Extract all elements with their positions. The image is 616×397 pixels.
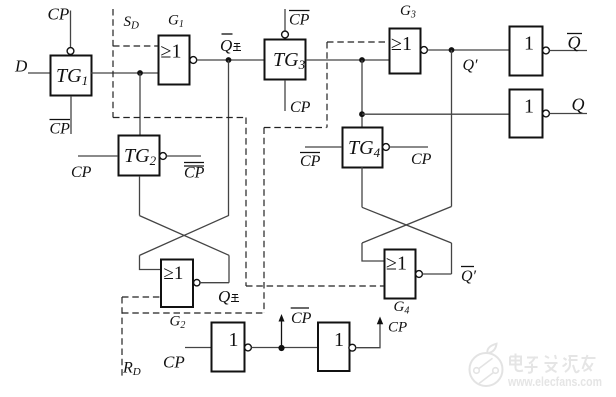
- svg-text:CP: CP: [289, 12, 310, 29]
- bubble on G1 output: [190, 57, 197, 64]
- wire junction down to TG4 top: [361, 60, 363, 127]
- svg-text:1: 1: [524, 96, 534, 118]
- label CP (top left): [48, 5, 70, 24]
- dashed into G4 input: [246, 285, 384, 287]
- wire TG1 bottom to CPbar: [70, 96, 72, 134]
- label G4: [394, 299, 410, 317]
- dashed RD horizontal run: [122, 312, 264, 314]
- svg-text:Q: Q: [572, 95, 585, 115]
- wire G2 output riser: [228, 255, 230, 282]
- dashed RD vertical: [121, 297, 123, 376]
- bubble on G3 output: [421, 47, 428, 54]
- label Qbar': [461, 267, 477, 286]
- label Qbar: [567, 33, 582, 53]
- wire master cross diagonal A: [140, 216, 230, 256]
- bubble on TG2 output: [160, 153, 167, 160]
- label Q-main: [218, 287, 239, 306]
- svg-text:≥1: ≥1: [386, 253, 407, 275]
- svg-text:CP: CP: [184, 165, 205, 182]
- label CP (at arrow 2): [388, 320, 407, 336]
- transmission gate TG4: [343, 128, 383, 168]
- svg-text:CP: CP: [300, 153, 321, 170]
- bubble on Q inverter output: [543, 110, 550, 117]
- dashed RD to G2 input: [122, 296, 160, 298]
- label G1: [168, 13, 184, 31]
- transmission gate TG1: [51, 56, 92, 96]
- dashed SD to G1 input: [113, 45, 158, 47]
- svg-text:Q: Q: [220, 36, 232, 55]
- bubble on bottom inverter 2 output: [349, 344, 356, 351]
- svg-text:CP: CP: [290, 99, 311, 116]
- wire slave cross diagonal B: [362, 207, 452, 244]
- svg-text:Q′: Q′: [463, 57, 479, 74]
- or-gate G2: [161, 260, 193, 308]
- wire TG3 bottom to CP: [284, 80, 286, 111]
- svg-text:CP: CP: [163, 353, 185, 372]
- junction node Q': [449, 47, 455, 53]
- wire CP to TG1 top: [70, 11, 72, 48]
- label CP (right of TG4): [411, 151, 432, 168]
- wire CP input (bottom): [185, 347, 211, 349]
- wire Qbar-main vertical: [228, 60, 230, 215]
- wire CPbar to TG3 top: [284, 9, 286, 31]
- wire G1 output to TG3: [197, 59, 264, 61]
- bubble on bottom inverter 1 output: [245, 344, 252, 351]
- svg-text:CP: CP: [48, 5, 70, 24]
- wire TG2 bottom: [139, 176, 141, 216]
- bubble on TG1 top: [67, 48, 74, 55]
- svg-text:Q′: Q′: [461, 268, 477, 285]
- wire TG1 output to G1: [91, 72, 158, 74]
- or-gate G3: [390, 29, 421, 74]
- svg-text:≥1: ≥1: [164, 263, 184, 284]
- transmission gate TG3: [265, 40, 306, 80]
- svg-text:CP: CP: [291, 310, 312, 327]
- label G3: [400, 3, 416, 21]
- label CP (below TG3): [290, 99, 311, 116]
- dashed into G3 input: [327, 41, 389, 43]
- label CP-bar (below TG1): [50, 120, 71, 138]
- svg-text:SD: SD: [124, 14, 140, 32]
- or-gate G1: [159, 36, 190, 85]
- wire G3 output to inverter: [427, 49, 509, 51]
- label CP-bar (left of TG4): [300, 153, 321, 171]
- wire inverter2 output to CP arrow: [355, 323, 380, 348]
- label CP (left of TG2): [71, 164, 92, 181]
- junction node above TG4: [359, 111, 365, 117]
- svg-text:D: D: [14, 57, 28, 76]
- svg-text:G3: G3: [400, 3, 416, 21]
- junction node Qbar-main: [226, 57, 232, 63]
- wire master cross diagonal B: [140, 215, 230, 255]
- label Qbar-main: [220, 34, 241, 55]
- label CP-bar (at arrow): [291, 308, 312, 327]
- svg-text:1: 1: [334, 329, 344, 351]
- svg-text:1: 1: [524, 33, 534, 55]
- label Q': [463, 57, 479, 74]
- wire TG4 bottom: [361, 167, 363, 207]
- wire inverter1 to inverter2: [251, 347, 317, 349]
- inverter bottom 2: [318, 323, 350, 372]
- wire slave cross diagonal A: [362, 207, 452, 243]
- svg-text:www.elecfans.com: www.elecfans.com: [507, 374, 602, 389]
- dashed vertical to G4: [245, 118, 247, 287]
- svg-text:≥1: ≥1: [391, 33, 412, 55]
- wire G2 output: [200, 282, 229, 284]
- label CP-double-bar (right of TG2): [184, 163, 205, 182]
- bubble on Qbar inverter output: [543, 47, 550, 54]
- inverter Q: [510, 90, 543, 138]
- svg-text:G4: G4: [394, 299, 410, 317]
- wire TG2 output: [166, 155, 201, 157]
- junction node CPbar: [278, 345, 284, 351]
- label SD: [124, 14, 140, 32]
- svg-text:Q: Q: [218, 287, 230, 306]
- wire TG2 input: [78, 155, 118, 157]
- junction node TG3 output: [359, 57, 365, 63]
- label RD: [122, 360, 141, 379]
- dashed vertical run to RD: [263, 128, 265, 314]
- junction node at TG1 output: [137, 70, 143, 76]
- label CP-bar (above TG3): [289, 11, 310, 29]
- wire G4 output: [422, 273, 451, 275]
- wire to Q inverter input: [362, 113, 509, 115]
- label G2: [170, 314, 186, 332]
- inverter bottom 1: [212, 323, 245, 372]
- wire TG4 output: [389, 146, 428, 148]
- label CP (bottom input): [163, 353, 185, 372]
- wire Q' vertical: [451, 50, 453, 207]
- svg-text:G2: G2: [170, 314, 186, 332]
- svg-text:CP: CP: [388, 320, 407, 336]
- dashed horizontal below TG3: [264, 127, 327, 129]
- wire G4 output riser: [451, 243, 453, 274]
- wire D input: [28, 72, 50, 74]
- arrowhead CP: [377, 317, 383, 325]
- wire Qbar output: [549, 50, 587, 52]
- node D label: [14, 57, 28, 76]
- bubble on TG3 top: [282, 31, 289, 38]
- svg-text:RD: RD: [122, 360, 141, 379]
- svg-text:CP: CP: [50, 121, 71, 138]
- svg-text:CP: CP: [71, 164, 92, 181]
- wire junction down to TG2 top: [139, 73, 141, 135]
- inverter Qbar: [510, 27, 543, 76]
- watermark text: [507, 354, 602, 390]
- svg-text:CP: CP: [411, 151, 432, 168]
- bubble on G2 output: [194, 280, 200, 286]
- svg-text:Q: Q: [568, 33, 581, 53]
- dashed SD vertical: [112, 9, 114, 118]
- or-gate G4: [385, 250, 416, 299]
- wire Q output: [549, 113, 587, 115]
- wire TG3 output to G3: [306, 59, 389, 61]
- svg-text:1: 1: [229, 329, 239, 351]
- svg-text:≥1: ≥1: [161, 41, 182, 63]
- transmission gate TG2: [119, 136, 160, 176]
- watermark logo: [470, 344, 503, 386]
- dashed vertical at TG3 right: [326, 42, 328, 128]
- dashed SD horizontal run: [113, 117, 246, 119]
- label Q: [572, 95, 585, 115]
- wire CPbar arrow up: [279, 314, 285, 348]
- wire TG4 input: [305, 146, 342, 148]
- svg-text:G1: G1: [168, 13, 184, 31]
- bubble on G4 output: [416, 271, 423, 278]
- wire to G2 upper input: [140, 255, 161, 269]
- wire to G4 upper input: [362, 243, 384, 261]
- bubble on TG4 output: [383, 144, 390, 151]
